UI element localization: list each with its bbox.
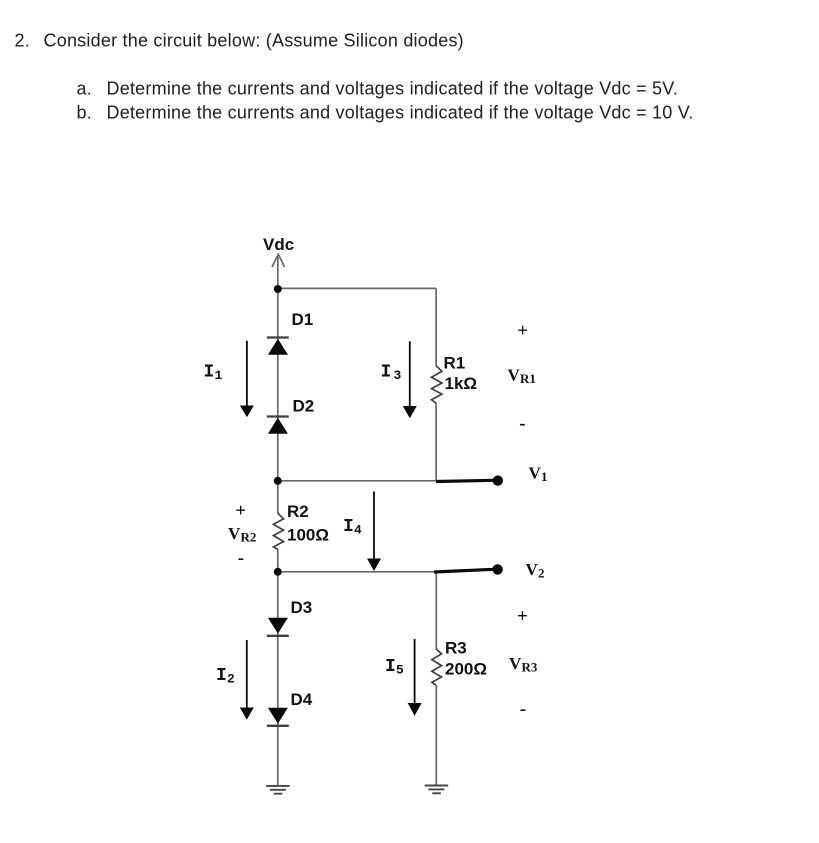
Vdc source arrow [272, 254, 285, 289]
svg-text:I: I [204, 362, 215, 382]
svg-text:-: - [238, 548, 244, 569]
node: top junction dot [274, 285, 282, 293]
wire: left vertical rail (top section) [277, 289, 279, 513]
svg-text:2: 2 [538, 565, 545, 580]
svg-text:Determine the currents and vol: Determine the currents and voltages indi… [107, 79, 679, 99]
svg-text:V: V [228, 524, 241, 543]
svg-text:Determine the currents and vol: Determine the currents and voltages indi… [107, 103, 694, 123]
svg-text:4: 4 [354, 523, 362, 538]
svg-text:+: + [517, 321, 528, 342]
svg-text:+: + [235, 501, 246, 522]
node: junction dot at V2 row [274, 568, 282, 576]
wire: right vertical above R1 [435, 288, 437, 365]
svg-text:1: 1 [541, 469, 548, 484]
node V2 terminal dot [492, 564, 502, 574]
diode D3 [267, 618, 289, 636]
svg-text:2: 2 [227, 672, 235, 687]
current arrow I5 [408, 639, 422, 716]
svg-text:2.: 2. [15, 31, 30, 51]
svg-text:Vdc: Vdc [263, 235, 294, 254]
svg-text:200Ω: 200Ω [445, 659, 487, 678]
diode D4 [267, 708, 289, 726]
node V1 terminal dot [493, 475, 503, 485]
svg-text:I: I [216, 666, 227, 686]
ground left [266, 786, 290, 794]
resistor R1 [432, 366, 442, 403]
ground right [425, 786, 449, 794]
diode D1 [267, 338, 289, 355]
svg-text:Consider the circuit below: (A: Consider the circuit below: (Assume Sili… [44, 31, 464, 51]
svg-text:R3: R3 [445, 639, 467, 658]
svg-text:100Ω: 100Ω [287, 526, 329, 545]
svg-text:D3: D3 [291, 598, 313, 617]
node: junction dot at V1 row [274, 477, 282, 485]
svg-text:R2: R2 [287, 502, 309, 521]
svg-text:I: I [385, 657, 396, 677]
svg-text:R1: R1 [444, 354, 466, 373]
svg-text:a.: a. [77, 79, 92, 99]
wire: top horizontal [278, 287, 436, 289]
resistor R3 [432, 649, 442, 685]
svg-text:V: V [508, 366, 521, 385]
wire: horizontal at node V1 row [278, 480, 436, 482]
wire: horizontal at node V2 row [278, 571, 437, 573]
svg-text:1: 1 [215, 368, 223, 383]
svg-text:D2: D2 [293, 397, 315, 416]
wire: left vertical rail (bottom section) [277, 549, 279, 786]
svg-text:I: I [381, 362, 392, 382]
svg-text:D1: D1 [292, 310, 314, 329]
svg-text:-: - [520, 698, 526, 719]
svg-text:1kΩ: 1kΩ [445, 374, 478, 393]
current arrow I3 [403, 341, 417, 418]
node V1 stub wire [436, 480, 494, 481]
svg-text:+: + [517, 606, 528, 627]
svg-text:V: V [529, 464, 542, 483]
svg-text:3: 3 [394, 368, 402, 383]
node V2 stub wire [434, 569, 494, 572]
wire: right vertical above R3 [435, 572, 437, 649]
resistor R2 [274, 513, 284, 549]
svg-text:V: V [526, 560, 539, 579]
svg-text:R2: R2 [241, 530, 257, 545]
current arrow I1 [240, 341, 254, 417]
current arrow I2 [240, 640, 254, 720]
wire: right vertical below R3 [435, 685, 437, 786]
svg-text:-: - [519, 413, 525, 434]
svg-text:5: 5 [396, 663, 404, 678]
svg-text:I: I [343, 517, 354, 537]
svg-text:D4: D4 [291, 690, 313, 709]
svg-text:b.: b. [77, 103, 92, 123]
wire: right vertical below R1 [435, 403, 437, 481]
current arrow I4 [367, 492, 381, 572]
svg-text:R1: R1 [520, 371, 536, 386]
svg-text:R3: R3 [522, 660, 538, 675]
svg-text:V: V [509, 654, 522, 673]
diode D2 [267, 417, 289, 434]
